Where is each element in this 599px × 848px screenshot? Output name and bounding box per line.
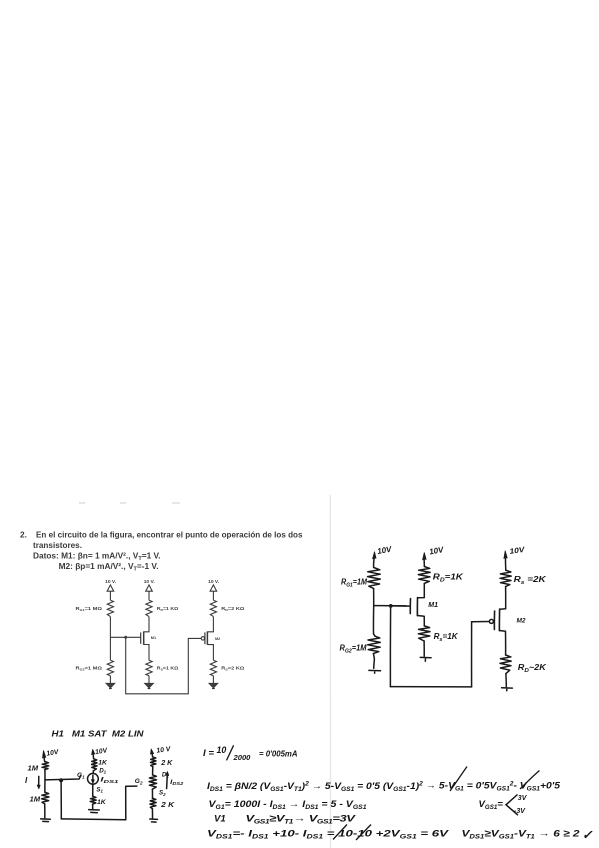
wire C gnd bbox=[505, 674, 507, 687]
svg-text:S1: S1 bbox=[96, 786, 103, 793]
svg-text:RD~2K: RD~2K bbox=[518, 663, 547, 674]
resistor RG1 hand bbox=[368, 568, 381, 589]
svg-text:RG1=1M: RG1=1M bbox=[341, 578, 367, 589]
wire below circle bbox=[92, 784, 94, 796]
transistor M1 bbox=[141, 631, 149, 660]
svg-text:En el circuito de la figura, e: En el circuito de la figura, encontrar e… bbox=[36, 530, 303, 540]
wire gate M1 hand bbox=[374, 605, 407, 607]
wire gate M1 net bbox=[110, 636, 140, 638]
wire node to bottom bbox=[126, 637, 202, 694]
wire node drop bottom bbox=[60, 780, 62, 819]
svg-text:✓: ✓ bbox=[582, 828, 593, 842]
svg-text:RG1=1 MΩ: RG1=1 MΩ bbox=[76, 606, 103, 612]
svg-text:IDS2: IDS2 bbox=[170, 779, 184, 786]
wire B to M1 bbox=[418, 583, 425, 597]
wire rail1-gnd bbox=[109, 676, 111, 684]
transistor M2 hand bbox=[489, 609, 505, 655]
supply arrow 10V branch A bbox=[373, 558, 376, 568]
wire bottom run left bbox=[61, 818, 126, 821]
resistor 2K right-top hand bbox=[151, 757, 157, 767]
svg-text:2.: 2. bbox=[20, 530, 27, 540]
ground G1 bbox=[106, 683, 114, 688]
resistor RD2 hand bbox=[500, 655, 511, 674]
wire drain M1 bbox=[144, 617, 149, 632]
svg-text:RG2=1M: RG2=1M bbox=[340, 644, 367, 655]
svg-text:VGS1≥VT1→ VGS1=3V: VGS1≥VT1→ VGS1=3V bbox=[246, 813, 358, 825]
svg-text:1K: 1K bbox=[97, 799, 107, 806]
wire left lower bbox=[44, 780, 46, 792]
wire bottom run bbox=[390, 686, 471, 688]
svg-text:RD=1 KΩ: RD=1 KΩ bbox=[157, 606, 179, 612]
svg-text:Rs =2K: Rs =2K bbox=[514, 575, 548, 586]
transistor M1 hand bbox=[391, 598, 424, 626]
svg-text:VDS1≥VGS1-VT1 → 6 ≥ 2: VDS1≥VGS1-VT1 → 6 ≥ 2 bbox=[462, 829, 581, 841]
svg-text:RS=1 KΩ: RS=1 KΩ bbox=[157, 666, 179, 672]
resistor 1K mid-top hand bbox=[92, 759, 97, 771]
strike swoosh on VGS1 bbox=[520, 771, 540, 790]
wire to source circle bbox=[92, 771, 94, 774]
ground C bbox=[502, 688, 513, 691]
svg-text:2 K: 2 K bbox=[160, 758, 173, 767]
HAND-CIRCUIT-RIGHT bbox=[368, 551, 513, 691]
resistor RG2 bbox=[107, 660, 113, 676]
svg-text:10 V.: 10 V. bbox=[208, 579, 220, 585]
strike slash 10 second bbox=[356, 825, 371, 841]
svg-text:VG1= 1000I - IDS1 → IDS1 = 5 -: VG1= 1000I - IDS1 → IDS1 = 5 - VGS1 bbox=[209, 799, 368, 811]
supply VDD3 10V arrow bbox=[210, 585, 217, 600]
HAND-BOTTOM-LABELS bbox=[25, 729, 184, 810]
resistor RS2top hand bbox=[500, 570, 511, 586]
wire mid gnd bbox=[92, 804, 94, 809]
svg-text:10V: 10V bbox=[46, 749, 61, 758]
wire left node bbox=[44, 770, 46, 780]
strike slash 10 first bbox=[333, 825, 347, 840]
wire B gnd bbox=[423, 641, 425, 656]
wire left gnd bbox=[44, 804, 46, 818]
ground mid bbox=[89, 810, 100, 813]
svg-text:Rs=1K: Rs=1K bbox=[434, 632, 459, 643]
wire rail3-gnd bbox=[212, 676, 214, 684]
svg-text:D1: D1 bbox=[99, 767, 106, 774]
svg-text:10 V.: 10 V. bbox=[105, 579, 117, 585]
wire A lower bbox=[373, 606, 375, 637]
resistor RS1 hand bbox=[418, 626, 430, 641]
resistor RS2 bbox=[210, 660, 216, 676]
supply arrow 10V branch B bbox=[423, 559, 425, 567]
transistor M2 bbox=[201, 631, 213, 660]
wire node horizontal bbox=[45, 776, 81, 780]
svg-text:D2: D2 bbox=[162, 771, 169, 778]
svg-text:2000: 2000 bbox=[233, 753, 252, 762]
resistor RS1 bbox=[146, 660, 152, 676]
supply VDD2 10V arrow bbox=[146, 585, 153, 600]
svg-text:-3V: -3V bbox=[514, 808, 526, 815]
ground right bbox=[150, 819, 158, 822]
node dot left bbox=[59, 778, 63, 782]
svg-text:RS=2 KΩ: RS=2 KΩ bbox=[221, 666, 244, 672]
wire node drop bbox=[389, 606, 391, 687]
svg-text:10: 10 bbox=[217, 745, 227, 755]
wire drain M2 bbox=[207, 617, 213, 632]
supply arrow 10V mid bbox=[92, 753, 95, 758]
resistor 1M top hand bbox=[42, 762, 49, 770]
resistor 2K right-bottom hand bbox=[150, 798, 156, 809]
ground B bbox=[420, 657, 431, 661]
resistor RD1 hand bbox=[418, 567, 430, 584]
wire right mid bbox=[151, 789, 153, 798]
svg-text:M1: M1 bbox=[151, 636, 156, 640]
wire A gnd bbox=[372, 654, 375, 669]
svg-text:1M: 1M bbox=[28, 763, 39, 772]
svg-text:10V: 10V bbox=[509, 545, 526, 556]
resistor RG1 bbox=[107, 600, 113, 616]
wire A node bbox=[373, 589, 375, 606]
svg-text:= 0'005mA: = 0'005mA bbox=[259, 750, 298, 759]
current I arrow bbox=[38, 776, 40, 786]
resistor channel M2 hand bbox=[149, 775, 157, 789]
HAND-EQUATIONS bbox=[203, 745, 593, 842]
svg-text:H1 M1 SAT M2 LIN: H1 M1 SAT M2 LIN bbox=[52, 729, 145, 739]
strike slash on 5-VG1 bbox=[450, 767, 467, 792]
svg-text:M2: M2 bbox=[517, 618, 526, 625]
svg-text:1K: 1K bbox=[98, 760, 108, 767]
resistor RD2 bbox=[210, 600, 216, 616]
svg-text:RG2=1 MΩ: RG2=1 MΩ bbox=[76, 666, 103, 672]
fold line bbox=[329, 495, 331, 848]
resistor RD1 bbox=[146, 600, 152, 616]
svg-text:IDS1 = βN/2 (VGS1-VT1)2 → 5-VG: IDS1 = βN/2 (VGS1-VT1)2 → 5-VGS1 = 0'5 (… bbox=[207, 780, 561, 793]
ground G3 bbox=[209, 683, 217, 688]
wire G2 riser bbox=[126, 786, 137, 820]
PRINTED-CIRCUIT-LABELS bbox=[76, 579, 245, 672]
supply arrow 10V left bbox=[43, 757, 46, 762]
svg-text:IDS1: IDS1 bbox=[100, 777, 119, 784]
wire right to channel bbox=[152, 767, 154, 775]
wire rise to gate M2 bbox=[471, 622, 473, 687]
svg-text:G1: G1 bbox=[77, 772, 85, 779]
wire rail1 bbox=[109, 617, 111, 661]
svg-text:RD=2 KΩ: RD=2 KΩ bbox=[221, 606, 244, 612]
svg-text:G2: G2 bbox=[135, 778, 143, 785]
HAND-RIGHT-LABELS bbox=[340, 545, 548, 674]
node gate junction bbox=[124, 636, 127, 639]
node dot A bbox=[389, 604, 393, 608]
svg-text:10 V.: 10 V. bbox=[144, 579, 156, 585]
wire gate M2 hand bbox=[472, 621, 490, 623]
svg-text:10V: 10V bbox=[95, 747, 110, 756]
PRINTED-CIRCUIT bbox=[106, 585, 220, 694]
resistor 1K mid-bottom hand bbox=[90, 796, 96, 804]
svg-text:VGS1=: VGS1= bbox=[479, 799, 504, 811]
HAND-CIRCUIT-BOTTOM bbox=[37, 749, 169, 822]
svg-text:I =: I = bbox=[203, 748, 214, 759]
svg-text:V1: V1 bbox=[214, 814, 226, 825]
svg-text:1M: 1M bbox=[30, 794, 41, 803]
svg-text:M1: M1 bbox=[428, 602, 438, 609]
supply arrow 10V right bbox=[151, 753, 154, 757]
resistor RG2 hand bbox=[368, 636, 381, 653]
svg-text:I: I bbox=[25, 776, 28, 785]
PRINTED-TEXT bbox=[20, 530, 303, 573]
supply arrow 10V branch C bbox=[504, 557, 506, 570]
svg-text:VDS1=- IDS1 +10- IDS1 = 10-10: VDS1=- IDS1 +10- IDS1 = 10-10 +2VGS1 = 6… bbox=[207, 829, 450, 841]
current source IDS1 bbox=[88, 773, 99, 784]
svg-text:RD=1K: RD=1K bbox=[433, 573, 464, 584]
svg-text:transistores.: transistores. bbox=[33, 540, 82, 550]
wire rail2-gnd bbox=[148, 676, 150, 684]
svg-text:10V: 10V bbox=[377, 545, 393, 556]
ground left bbox=[41, 819, 51, 822]
svg-text:M2: M2 bbox=[215, 637, 220, 641]
ground G2 bbox=[145, 683, 153, 688]
ground A bbox=[369, 670, 381, 673]
supply VDD1 10V arrow bbox=[107, 585, 114, 600]
current IDS2 arrow bbox=[166, 774, 169, 789]
svg-text:M2: βp=1 mA/V²., VT=-1 V.: M2: βp=1 mA/V²., VT=-1 V. bbox=[59, 561, 159, 573]
resistor 1M bottom hand bbox=[42, 792, 50, 804]
wire right gnd bbox=[151, 809, 153, 819]
svg-text:3V: 3V bbox=[518, 795, 528, 802]
svg-text:10 V: 10 V bbox=[156, 746, 172, 755]
wire C to M2 bbox=[500, 587, 506, 610]
svg-text:10V: 10V bbox=[429, 545, 445, 556]
svg-text:S2: S2 bbox=[159, 790, 166, 797]
svg-text:2 K: 2 K bbox=[160, 800, 175, 809]
